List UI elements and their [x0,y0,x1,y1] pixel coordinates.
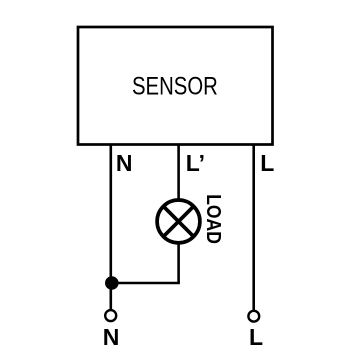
svg-text:L: L [260,150,274,176]
svg-text:N: N [116,150,133,176]
svg-text:L: L [249,324,263,350]
svg-text:SENSOR: SENSOR [132,71,218,100]
svg-text:L’: L’ [186,150,205,176]
svg-text:LOAD: LOAD [202,194,225,244]
svg-text:N: N [103,324,120,350]
